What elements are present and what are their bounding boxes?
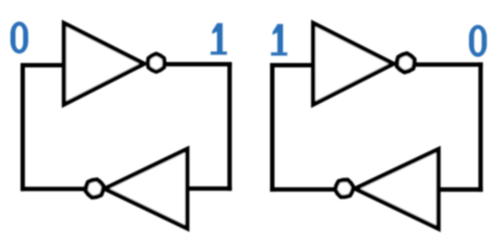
inverter U2 output bubble xyxy=(84,177,105,199)
inverter U3 output bubble xyxy=(396,52,416,73)
left latch: node Qbar label "1" xyxy=(211,23,227,55)
inverter U4 triangle (points left) xyxy=(355,149,438,228)
left latch: node Q label "0" xyxy=(10,22,28,54)
inverter U1 triangle (points right) xyxy=(64,23,144,104)
inverter U4 output bubble xyxy=(333,177,355,200)
inverter U3 triangle (points right) xyxy=(313,23,393,104)
wire: right latch top-left horizontal (input of U3) xyxy=(272,63,312,67)
wire: left latch bottom-left horizontal (output of U2) xyxy=(23,187,85,191)
wire: left latch bottom-right horizontal (input of U2) xyxy=(187,186,230,190)
wire: left latch top-right horizontal (U1 output) xyxy=(166,62,230,66)
wire: right latch right vertical feedback xyxy=(478,65,482,190)
right latch: node Qbar label "0" xyxy=(469,25,487,57)
right latch: node Q label "1" xyxy=(271,24,287,56)
wire: right latch bottom-right horizontal (input of U4) xyxy=(438,187,481,191)
wire: left latch top-left horizontal (input of U1) xyxy=(23,63,63,67)
wire: right latch top-right horizontal (U3 output) xyxy=(415,62,480,66)
wire: right latch left vertical feedback xyxy=(270,65,274,189)
wire: left latch right vertical feedback xyxy=(227,64,231,188)
wire: left latch left vertical feedback xyxy=(21,65,25,189)
inverter U2 triangle (points left) xyxy=(105,149,187,228)
inverter U1 output bubble xyxy=(148,54,165,72)
wire: right latch bottom-left horizontal (output of U4) xyxy=(272,187,334,191)
